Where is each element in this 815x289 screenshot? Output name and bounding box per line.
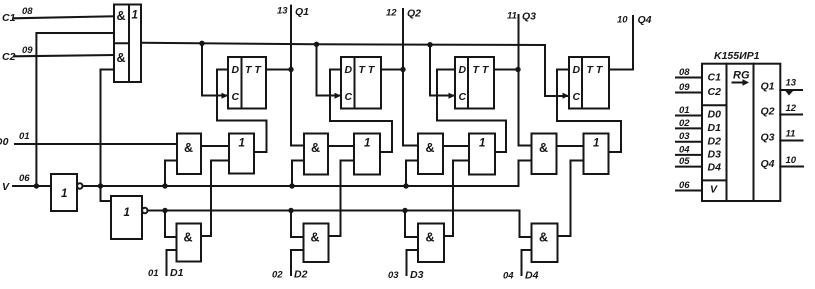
svg-text:Q3: Q3 [761,132,775,144]
wire TT4 output to pin Q4 [609,16,633,70]
svg-text:D4: D4 [708,162,722,174]
svg-text:Q2: Q2 [761,106,775,118]
svg-text:1: 1 [239,138,245,150]
svg-text:&: & [539,231,548,245]
OR gate stage1 [229,134,254,174]
shift AND gate stage4 [532,134,557,175]
junction rail1 stage1 [162,183,167,188]
svg-text:D4: D4 [525,270,539,282]
junction node Q2 [400,67,405,72]
wire rail2 step to stage3 load AND [405,211,418,238]
junction clock-FF1 [199,41,204,46]
svg-text:08: 08 [679,67,690,78]
pin label 10 Q4 [617,14,652,26]
wire V to inverter 1 [13,185,51,187]
svg-text:1: 1 [479,138,485,150]
svg-text:05: 05 [679,156,690,167]
input C2 label and pin 09 [2,45,33,63]
svg-text:12: 12 [386,8,397,19]
load AND gate stage4 [532,224,558,263]
D flip-flop TT4 [569,57,609,109]
wire pin D4 to load AND4 [522,250,532,275]
IC pin wire 06 V [676,190,702,192]
svg-text:T T: T T [359,64,376,76]
wire C1 to clock block [14,16,114,18]
svg-text:10: 10 [786,155,797,166]
IC pin wire 01 D0 [676,115,702,117]
svg-text:Q3: Q3 [522,11,536,23]
svg-text:&: & [311,231,320,245]
IC pin wire 05 D4 [676,166,702,168]
IC pin wire 03 D2 [676,141,702,143]
wire rail1 step to stage2 shift AND [292,161,304,187]
svg-text:Q4: Q4 [761,158,775,170]
svg-text:&: & [539,141,548,155]
wire shift AND1 to OR1 [201,145,229,147]
wire rail2 step to stage2 load AND [291,211,304,238]
svg-text:Q1: Q1 [761,81,775,93]
wire D0 to stage1 shift AND [15,143,177,145]
IC shift arrow [733,79,750,85]
junction rail2 stage1 [162,208,167,213]
svg-text:03: 03 [388,270,399,281]
ink blot under pin 13 [786,91,794,96]
svg-text:03: 03 [679,131,690,142]
wire pin D1 to load AND1 [167,250,177,275]
wire pin D3 to load AND3 [407,250,419,275]
wire TT1 output to node Q1 [266,69,291,71]
wire load AND4 output to OR4 [558,161,584,237]
wire pin D2 to load AND2 [291,250,304,275]
svg-text:13: 13 [277,6,288,17]
OR gate stage4 [584,134,609,175]
junction rail1 stage2 [289,183,294,188]
svg-text:T T: T T [587,64,604,76]
svg-text:RG: RG [733,70,750,82]
IC pin wire 08 C1 [676,77,702,79]
pin label 02 D2 [272,269,308,281]
shift AND gate stage3 [418,134,443,175]
dynamic C arrow TT4 [563,93,570,99]
wire load AND2 output to OR2 [329,161,355,237]
svg-text:D1: D1 [708,122,722,134]
svg-text:C2: C2 [708,86,722,98]
wire load AND3 output to OR3 [444,161,469,237]
svg-text:06: 06 [679,180,690,191]
wire shift AND2 to OR2 [328,145,354,147]
input C1 label and pin 08 [2,6,33,24]
svg-text:D1: D1 [170,267,184,279]
svg-text:D: D [232,64,240,76]
wire load AND1 output to OR1 [201,161,229,237]
IC symbol body [702,64,780,201]
svg-text:04: 04 [503,271,514,282]
svg-text:09: 09 [22,45,33,56]
svg-text:D2: D2 [708,135,722,147]
junction clock-FF3 [427,42,432,47]
svg-text:D0: D0 [708,109,722,121]
svg-text:&: & [117,9,126,23]
IC pin wire 04 D3 [676,154,702,156]
rail V (load enable) [148,211,532,238]
svg-text:V: V [2,181,10,193]
junction rail1 to inverter2 [98,183,103,188]
pin label 13 Q1 [277,6,309,19]
wire OR2 output to TT2 D [330,70,392,153]
wire C2 to clock block [14,55,114,56]
pin label 12 Q2 [386,8,421,20]
svg-text:04: 04 [679,144,690,155]
wire TT3 output to node Q3 [494,69,518,71]
wire node Q1 to stage2 shift AND [291,6,304,146]
svg-text:&: & [426,141,435,155]
svg-text:1: 1 [364,138,370,150]
wire C feed FF2 [317,44,342,95]
wire V to upper clock AND [36,33,114,186]
wire rail2 step to stage1 load AND [165,211,177,238]
svg-text:&: & [426,231,435,245]
svg-text:D0: D0 [0,136,9,148]
wire rail1 step to stage1 shift AND [165,161,177,187]
load AND gate stage2 [304,224,329,263]
svg-text:13: 13 [786,78,797,89]
svg-text:08: 08 [22,6,33,17]
svg-text:K155ИР1: K155ИР1 [714,50,760,62]
svg-text:02: 02 [272,270,283,281]
IC pin wire Q2 12 [780,114,802,116]
junction node Q1 [288,67,293,72]
shift AND gate stage2 [304,134,328,175]
svg-text:1: 1 [124,207,130,219]
junction rail1 stage3 [403,183,408,188]
svg-text:C: C [345,91,353,103]
svg-text:Q4: Q4 [638,14,652,26]
wire C feed FF1 [202,43,228,95]
IC pin wire 02 D1 [676,127,702,129]
inverter 1 [51,174,83,211]
svg-text:C: C [573,91,581,103]
svg-text:1: 1 [593,138,599,150]
load AND gate stage3 [418,224,444,263]
wire Vbar to lower clock AND [101,70,115,187]
svg-text:D3: D3 [708,149,722,161]
wire node Q2 to stage3 shift AND [403,9,418,146]
wire OR1 output to TT1 D [217,70,267,153]
OR gate stage2 [354,134,380,175]
svg-text:02: 02 [679,118,690,129]
shift AND gate stage1 [177,134,201,175]
svg-text:V: V [710,184,718,196]
wire rail1 to inverter 2 [101,186,112,201]
svg-text:Q2: Q2 [407,8,421,20]
svg-text:D: D [345,64,353,76]
wire shift AND4 to OR4 [557,145,584,147]
svg-text:10: 10 [617,15,628,26]
svg-text:09: 09 [679,82,690,93]
OR gate stage3 [469,134,495,175]
dynamic C arrow TT1 [222,93,229,99]
wire C feed FF3 [430,45,455,96]
IC pin wire 09 C2 [676,92,702,94]
wire shift AND3 to OR3 [443,145,469,147]
wire OR4 output to TT4 D [557,70,621,153]
svg-text:01: 01 [19,131,30,142]
svg-text:C: C [459,91,467,103]
D flip-flop TT1 [228,57,266,109]
svg-text:11: 11 [786,129,796,140]
svg-text:T T: T T [473,64,490,76]
wire clock rail to FF4 C [141,43,569,96]
IC pin wire Q4 10 [780,166,803,168]
D flip-flop TT3 [455,57,494,109]
pin label 03 D3 [388,269,424,281]
D flip-flop TT2 [341,57,381,109]
pin label 04 D4 [503,270,539,282]
junction V split [34,183,39,188]
junction rail2 stage3 [402,208,407,213]
svg-text:11: 11 [507,11,517,22]
svg-text:06: 06 [19,173,30,184]
svg-text:1: 1 [132,10,138,22]
svg-text:D2: D2 [294,269,308,281]
load AND gate stage1 [177,224,202,262]
svg-text:D: D [573,64,581,76]
rail Vbar (shift enable) [83,161,532,187]
junction node Q3 [515,67,520,72]
wire rail1 step to stage3 shift AND [406,161,418,187]
svg-text:&: & [117,51,126,65]
dynamic C arrow TT2 [335,93,342,99]
IC pin wire Q3 11 [780,140,802,142]
clock AND-OR select block [114,5,141,83]
svg-text:C1: C1 [708,72,722,84]
junction rail2 stage2 [288,208,293,213]
input D0 label and pin 01 [0,131,30,148]
wire OR3 output to TT3 D [437,70,506,153]
pin label 11 Q3 [507,11,536,23]
input V label and pin 06 [2,173,30,193]
svg-text:T T: T T [245,64,262,76]
wire TT2 output to node Q2 [381,69,403,71]
svg-text:&: & [311,141,320,155]
svg-text:D: D [459,64,467,76]
svg-text:01: 01 [148,268,159,279]
junction clock-FF2 [314,42,319,47]
svg-text:D3: D3 [410,269,424,281]
pin label 01 D1 [148,267,184,279]
svg-text:1: 1 [61,188,67,200]
svg-text:12: 12 [786,103,797,114]
svg-text:&: & [184,141,193,155]
inverter 2 [111,196,148,239]
svg-text:Q1: Q1 [295,6,309,18]
svg-text:&: & [184,231,193,245]
svg-text:C: C [232,91,240,103]
IC pin wire Q1 13 [780,89,802,91]
svg-text:01: 01 [679,105,690,116]
wire node Q3 to stage4 shift AND [519,15,532,146]
dynamic C arrow TT3 [449,93,456,99]
